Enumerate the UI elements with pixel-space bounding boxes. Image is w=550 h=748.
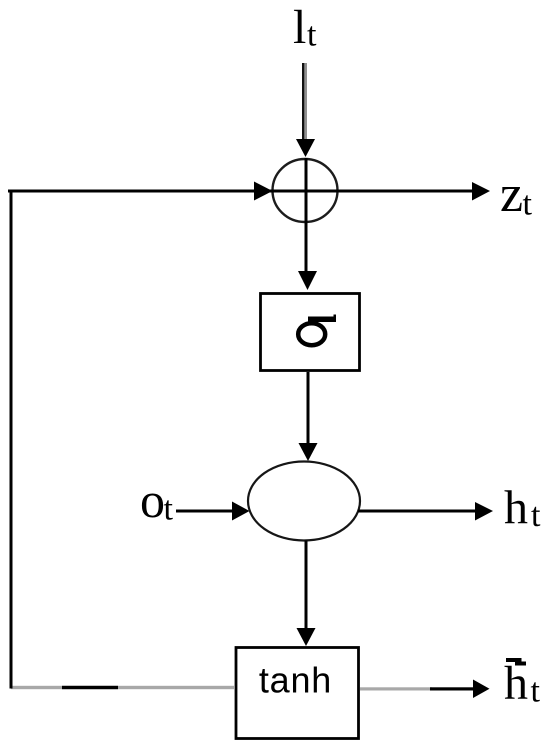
wire vertical through summing junction down to sigma box — [305, 158, 308, 273]
arrowhead to z_t output — [472, 182, 490, 201]
feedback wire gray segment left of tanh box — [11, 686, 234, 689]
svg-text:h: h — [504, 482, 528, 535]
arrowhead into top of summing junction — [296, 139, 315, 157]
arrowhead into sigma box — [298, 271, 317, 290]
sigma glyph — [298, 315, 336, 346]
svg-text:z: z — [500, 166, 523, 223]
wire horizontal main (left feedback into junction, through junction, out to z_t) — [8, 190, 475, 193]
label h_tilde_t — [504, 657, 541, 710]
label o_t — [140, 472, 174, 528]
wire ellipse down to tanh box — [305, 541, 308, 629]
label l_t (input) — [293, 1, 317, 54]
output wire gray segment right of tanh box — [360, 687, 432, 690]
output wire black segment to h-tilde arrowhead — [430, 687, 477, 690]
summing junction circle — [273, 159, 338, 222]
svg-text:t: t — [531, 673, 541, 710]
svg-text:h: h — [504, 657, 528, 710]
sigma box — [261, 294, 360, 371]
arrowhead into left of summing junction — [254, 182, 273, 201]
label z_t — [500, 166, 533, 223]
arrowhead to h_tilde output — [473, 680, 490, 699]
wire from l_t down to summing junction — [302, 63, 307, 142]
product ellipse node — [248, 462, 360, 541]
label h_t — [504, 482, 541, 535]
svg-text:l: l — [293, 1, 306, 54]
arrowhead to h_t output — [475, 502, 493, 521]
wire ellipse to h_t output — [358, 510, 477, 513]
svg-text:t: t — [164, 491, 174, 528]
svg-text:o: o — [140, 472, 165, 528]
left feedback vertical wire — [10, 190, 13, 689]
svg-text:t: t — [531, 497, 541, 534]
arrowhead o_t into ellipse — [232, 502, 250, 521]
svg-text:t: t — [523, 186, 533, 223]
arrowhead into tanh box — [297, 628, 316, 646]
feedback wire black segment (left run) — [62, 686, 118, 689]
wire sigma box down to ellipse — [307, 372, 310, 443]
tanh box — [236, 648, 359, 739]
arrowhead into top of ellipse — [299, 443, 318, 461]
svg-text:tanh: tanh — [259, 660, 332, 701]
svg-text:t: t — [307, 17, 317, 54]
wire o_t into ellipse — [176, 510, 233, 513]
